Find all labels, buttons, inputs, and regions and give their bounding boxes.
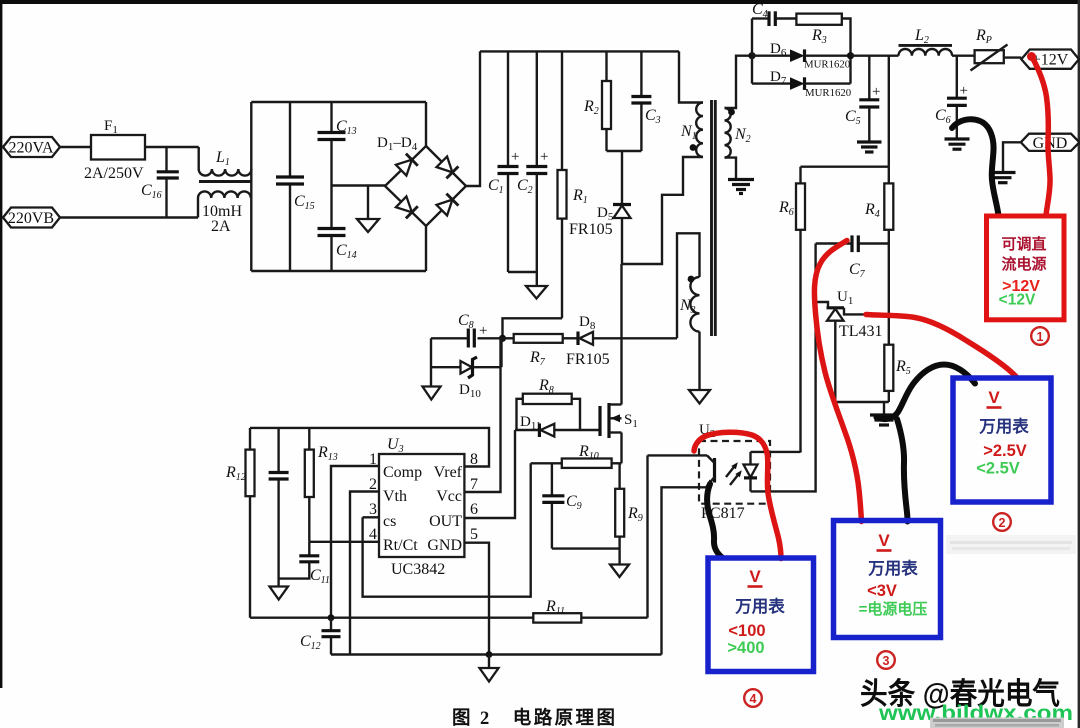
svg-text:可调直: 可调直 <box>1001 235 1046 253</box>
svg-text:220VA: 220VA <box>8 140 53 157</box>
diode D4 bottom-right arm <box>437 194 459 216</box>
wire S1 source <box>620 433 622 464</box>
wire D10 right up to Vcc node <box>500 338 502 367</box>
capacitor C10 <box>269 428 289 587</box>
capacitor C6 electrolytic <box>935 56 968 138</box>
svg-text:+: + <box>540 149 548 165</box>
annotation box4 multimeter <box>708 558 814 672</box>
ground C6 bar style <box>945 139 970 149</box>
capacitor C7 <box>816 235 889 280</box>
red wire probe +12V to box1 <box>1027 52 1050 216</box>
black wire probe box2 to ground <box>877 365 976 420</box>
transformer core <box>712 100 716 336</box>
resistor R3 <box>796 14 850 56</box>
wire N3 top to D8 line <box>677 233 700 338</box>
connector 220VB <box>3 208 60 228</box>
watermark noise strip right <box>946 535 1076 554</box>
svg-text:MUR1620: MUR1620 <box>804 59 850 71</box>
wire C1 C2 bottom <box>508 271 537 273</box>
wire bridge output right <box>466 51 480 186</box>
diode D11 <box>515 414 600 437</box>
svg-text:MUR1620: MUR1620 <box>805 87 851 99</box>
svg-text:OUT: OUT <box>429 513 462 530</box>
annotation box3 multimeter <box>834 521 941 638</box>
capacitor C1 electrolytic <box>488 51 519 272</box>
ground R9 <box>610 565 629 578</box>
bridge rectifier D1-D4 <box>377 135 466 226</box>
transistor PC817 phototransistor <box>706 455 715 487</box>
svg-text:4: 4 <box>369 526 377 543</box>
red wire probe PC817 to box4 <box>694 432 781 558</box>
capacitor C13 <box>318 102 357 186</box>
border left <box>0 0 2 688</box>
capacitor C16 <box>141 147 179 218</box>
transistor Q S1 MOSFET <box>600 403 638 438</box>
inductor L1 common-mode choke <box>198 147 251 235</box>
svg-text:FR105: FR105 <box>569 221 613 238</box>
black wire probe ground to box3 <box>897 419 908 522</box>
annotation box1 adjustable DC supply <box>987 216 1065 320</box>
wire C9 R9 bottom <box>552 547 620 549</box>
wire TL431 anode to R5 bottom <box>835 401 889 403</box>
wire sense tap <box>888 56 890 167</box>
ground C2 <box>526 286 547 299</box>
wire pin3 cs stub <box>363 516 379 518</box>
node ground dot <box>486 651 493 658</box>
annotation box2 multimeter <box>953 378 1051 502</box>
svg-text:FR105: FR105 <box>566 351 610 368</box>
black wire probe PC817 to box4 <box>707 484 722 558</box>
diode D6 <box>752 41 851 71</box>
diode D5 <box>569 151 631 264</box>
capacitor C5 electrolytic <box>845 56 880 141</box>
connector +12V <box>1021 50 1079 69</box>
svg-text:+: + <box>479 323 487 339</box>
svg-text:<100: <100 <box>728 622 765 640</box>
border right <box>1078 0 1080 728</box>
wire fuse to L1 <box>145 146 199 148</box>
resistor R11 <box>533 598 647 623</box>
node circled 2 <box>993 513 1011 531</box>
wire R1 bottom elbow to Vcc node <box>503 318 563 338</box>
svg-text:流电源: 流电源 <box>1001 255 1046 273</box>
resistor R4 <box>864 167 893 345</box>
svg-text:V: V <box>988 388 1000 407</box>
wire PC817 LED anode to R6 <box>751 451 801 454</box>
connector GND <box>1021 134 1080 152</box>
ground C8 <box>423 387 441 400</box>
wire filter box bottom rail <box>251 270 426 272</box>
wire comp rail <box>250 617 533 619</box>
capacitor C4 <box>752 1 796 56</box>
node phase dot N2 <box>728 109 735 116</box>
svg-text:Comp: Comp <box>383 464 422 481</box>
resistor Rp <box>971 27 1022 71</box>
capacitor C15 <box>276 102 315 271</box>
svg-text:5: 5 <box>470 526 478 543</box>
svg-text:Rt/Ct: Rt/Ct <box>383 537 418 554</box>
transformer winding N1 <box>680 103 703 157</box>
wire pin5 GND down <box>464 543 489 655</box>
svg-text:220VB: 220VB <box>8 210 54 227</box>
diode D3 bottom-left arm <box>396 196 418 218</box>
node phase dot N1 <box>690 144 697 151</box>
red wire probe TL431 to box2 <box>866 315 1016 377</box>
svg-text:6: 6 <box>470 501 478 518</box>
wire OUT gate line <box>464 430 515 518</box>
wire pin1 Comp <box>331 466 379 618</box>
wire R11 up to PC817 collector <box>646 455 648 617</box>
black wire probe C6 ground to box1 <box>952 119 999 215</box>
svg-text:V: V <box>878 531 890 550</box>
capacitor C11 <box>279 542 330 586</box>
wire PC817 collector pin <box>648 454 708 456</box>
ground GND connector bar style <box>990 173 1016 183</box>
wire pin8 Vref to top rail <box>250 428 489 467</box>
resistor R10 <box>531 443 622 468</box>
connector 220VA <box>3 137 60 157</box>
ground N2 bar style <box>728 180 754 194</box>
wire bridge top to box rail <box>425 102 427 146</box>
diode D2 top-right arm <box>437 157 459 179</box>
watermark noise strip bottom <box>930 718 1064 728</box>
resistor R13 <box>305 428 338 542</box>
svg-text:2: 2 <box>999 516 1006 530</box>
wire N3 bottom <box>698 332 700 390</box>
resistor R6 <box>778 167 805 453</box>
wire N2 bottom <box>725 158 737 178</box>
wire C8 left down <box>430 338 432 386</box>
wire ground rail <box>331 653 662 655</box>
diode D1 top-left arm <box>396 154 418 176</box>
svg-text:GND: GND <box>427 537 462 554</box>
svg-text:7: 7 <box>470 476 478 493</box>
diode U1 TL431 <box>816 289 889 402</box>
svg-text:D1–D4: D1–D4 <box>377 135 418 153</box>
svg-text:<2.5V: <2.5V <box>976 460 1020 478</box>
wire output rail to L2 <box>851 55 899 57</box>
svg-text:<12V: <12V <box>999 292 1036 309</box>
wire sense split <box>801 165 889 167</box>
wire N2 top <box>725 56 753 108</box>
svg-text:=电源电压: =电源电压 <box>859 600 928 618</box>
resistor R1 <box>558 51 588 318</box>
node Vcc dot <box>499 335 506 342</box>
capacitor C2 electrolytic <box>517 51 548 272</box>
svg-text:cs: cs <box>383 513 396 530</box>
ground at filter mid <box>357 186 379 233</box>
capacitor C9 <box>542 463 581 548</box>
wire mid line to bridge <box>332 184 386 186</box>
svg-text:<3V: <3V <box>867 582 897 600</box>
svg-text:万用表: 万用表 <box>734 596 785 616</box>
capacitor C14 <box>318 186 357 272</box>
wire pin4 RtCt stub <box>309 541 379 543</box>
node phase dot N3 <box>688 276 695 283</box>
wire snubber join <box>607 150 642 152</box>
capacitor C3 <box>631 51 660 151</box>
wire L2 to Rp <box>952 55 975 57</box>
wire bridge bottom to box rail <box>425 226 427 271</box>
resistor R2 <box>583 51 611 151</box>
ground C10 <box>270 587 289 600</box>
capacitor C8 electrolytic <box>431 312 503 348</box>
svg-text:>2.5V: >2.5V <box>983 442 1027 460</box>
node output dot left <box>748 52 755 59</box>
svg-text:3: 3 <box>883 654 890 668</box>
light arrows PC817 <box>726 462 742 485</box>
inductor L2 <box>899 27 953 56</box>
diode D10 zener <box>431 357 502 400</box>
svg-text:+: + <box>511 149 519 165</box>
ground main rail <box>480 655 499 682</box>
resistor R5 <box>884 345 910 402</box>
wire 220VB to L1 <box>60 216 198 218</box>
node comp dot <box>328 614 335 621</box>
svg-text:V: V <box>749 567 761 586</box>
wire main top rail <box>480 50 679 52</box>
svg-text:4: 4 <box>750 692 757 706</box>
diode D7 <box>752 56 851 99</box>
svg-text:+: + <box>960 83 968 99</box>
resistor R7 <box>503 334 579 368</box>
node circled 3 <box>877 651 895 669</box>
wire 220VA to fuse <box>60 146 91 148</box>
diode D8 <box>566 314 677 368</box>
ground R5 bar style <box>870 402 898 425</box>
wire N1 top <box>679 51 703 102</box>
diode PC817 LED <box>744 452 758 492</box>
svg-text:TL431: TL431 <box>839 323 883 340</box>
svg-text:图 2 电路原理图: 图 2 电路原理图 <box>452 707 615 728</box>
wire filter box left edge <box>250 102 252 271</box>
wire PC817 emitter pin <box>662 487 707 654</box>
svg-text:Vth: Vth <box>383 488 407 505</box>
svg-text:Vref: Vref <box>434 464 463 481</box>
wire GND connector <box>1003 142 1021 171</box>
svg-text:Vcc: Vcc <box>436 488 462 505</box>
svg-text:2A: 2A <box>211 218 231 235</box>
svg-text:1: 1 <box>1037 330 1044 344</box>
resistor R9 <box>615 463 643 564</box>
svg-text:万用表: 万用表 <box>978 416 1029 436</box>
wire pin2 Vth to ground rail <box>350 492 379 655</box>
svg-text:>400: >400 <box>727 639 764 657</box>
op-amp U3 UC3842 box <box>379 436 464 578</box>
svg-text:+: + <box>872 84 880 100</box>
svg-text:万用表: 万用表 <box>867 558 918 578</box>
resistor R12 <box>225 428 255 618</box>
border top <box>0 0 1080 4</box>
transformer winding N2 <box>725 108 751 158</box>
op-amp U2 PC817 dashed box <box>699 422 770 522</box>
node circled 1 <box>1031 327 1049 345</box>
transformer winding N3 <box>679 277 700 332</box>
ground N3 <box>689 390 710 404</box>
ground C5 bar style <box>857 142 882 152</box>
svg-text:2A/250V: 2A/250V <box>84 165 144 182</box>
wire filter box top rail <box>251 101 426 103</box>
svg-text:UC3842: UC3842 <box>391 561 445 578</box>
capacitor C12 <box>300 618 341 655</box>
fuse F1 <box>84 118 145 182</box>
svg-text:3: 3 <box>369 501 377 518</box>
red wire probe C7 to box3 <box>814 241 861 522</box>
wire S1 drain <box>620 264 622 405</box>
wire D5 to N1 bottom stairs <box>622 157 703 264</box>
node circled 4 <box>744 689 762 707</box>
wire cs sense <box>363 463 531 596</box>
wire pin7 Vcc up to node <box>464 340 500 492</box>
node output dot right <box>847 52 854 59</box>
resistor R8 <box>517 377 581 430</box>
wire C7 left down to LED cathode <box>751 244 816 492</box>
